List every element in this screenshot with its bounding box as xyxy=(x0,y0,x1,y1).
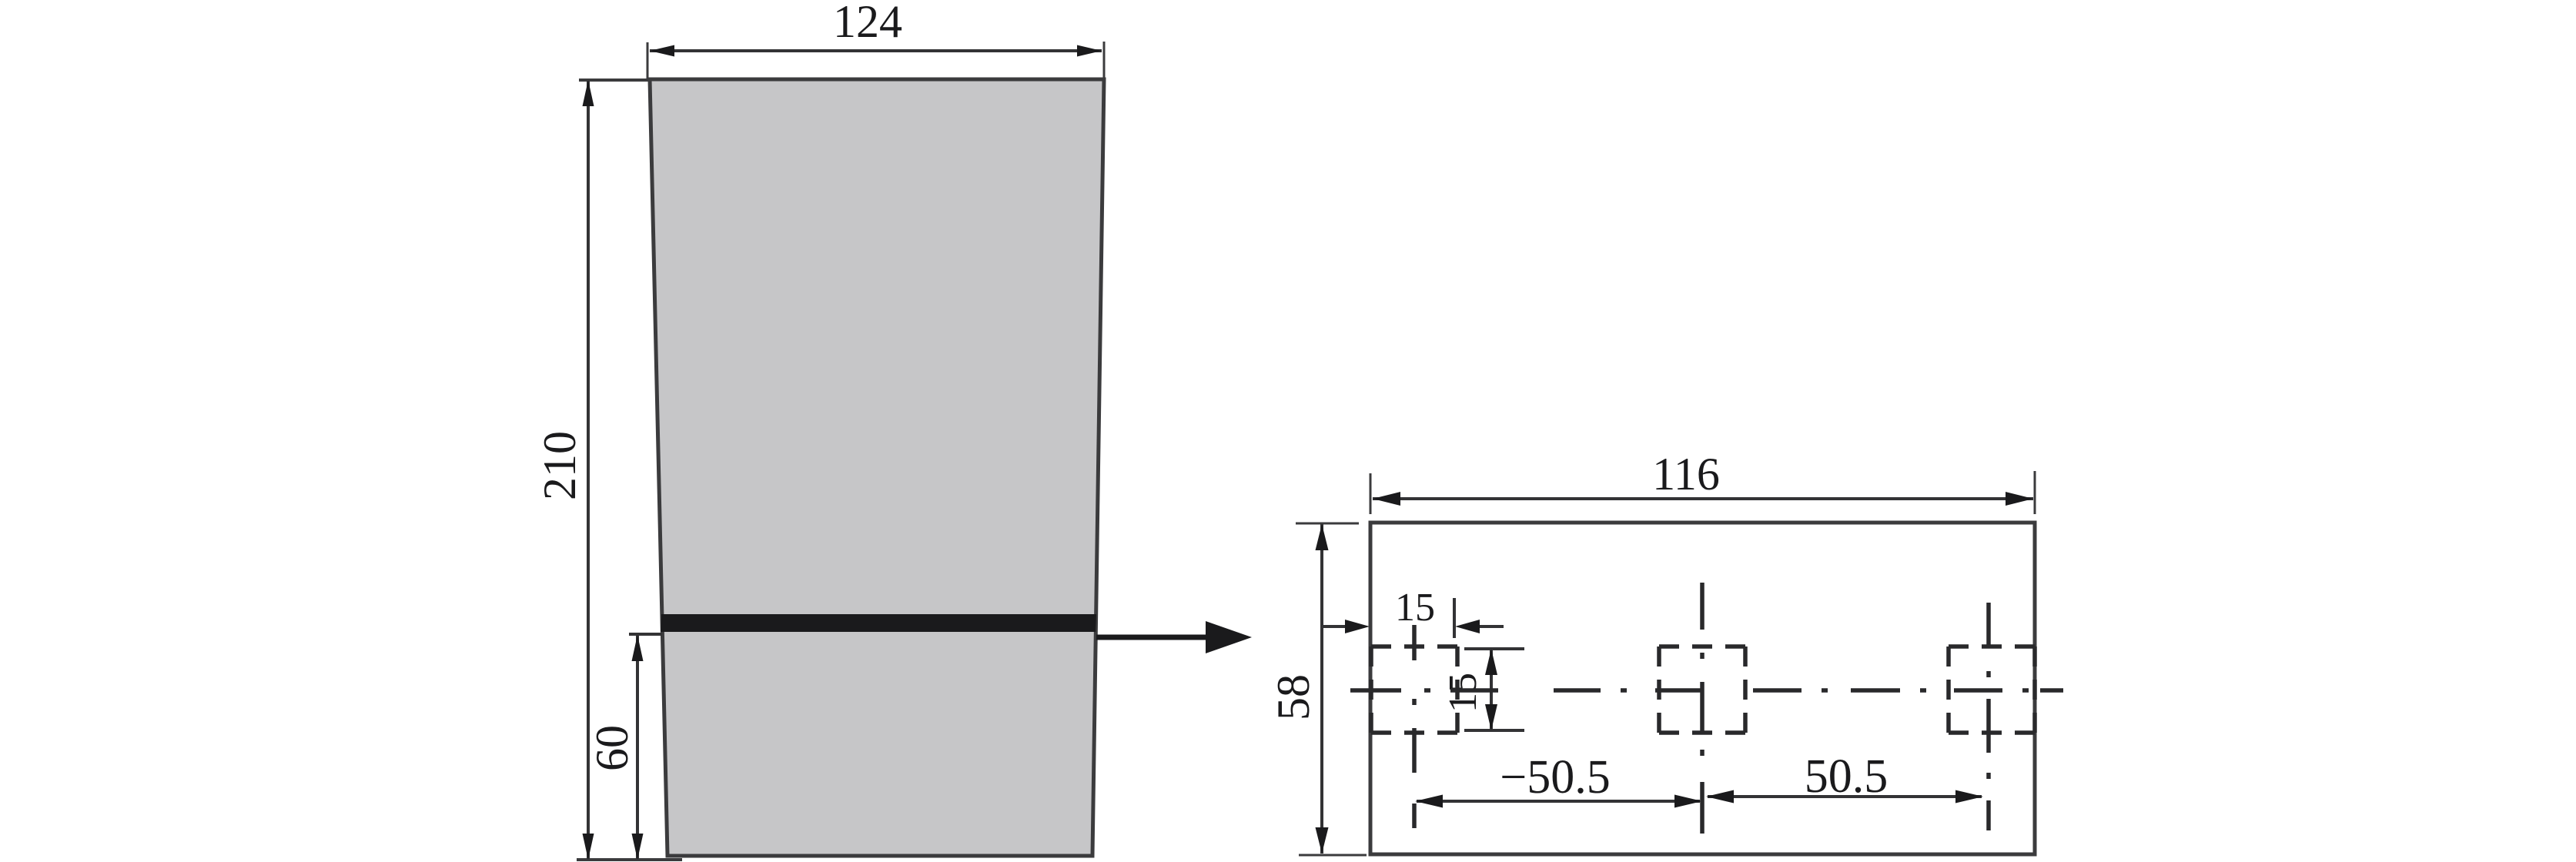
svg-text:210: 210 xyxy=(534,431,585,500)
svg-text:50.5: 50.5 xyxy=(1805,750,1889,803)
svg-text:15: 15 xyxy=(1395,586,1435,630)
svg-text:124: 124 xyxy=(833,0,902,47)
svg-text:15: 15 xyxy=(1441,673,1485,713)
svg-text:58: 58 xyxy=(1268,674,1319,720)
svg-text:60: 60 xyxy=(587,725,637,771)
svg-text:−50.5: −50.5 xyxy=(1500,751,1610,804)
svg-text:116: 116 xyxy=(1652,449,1720,499)
